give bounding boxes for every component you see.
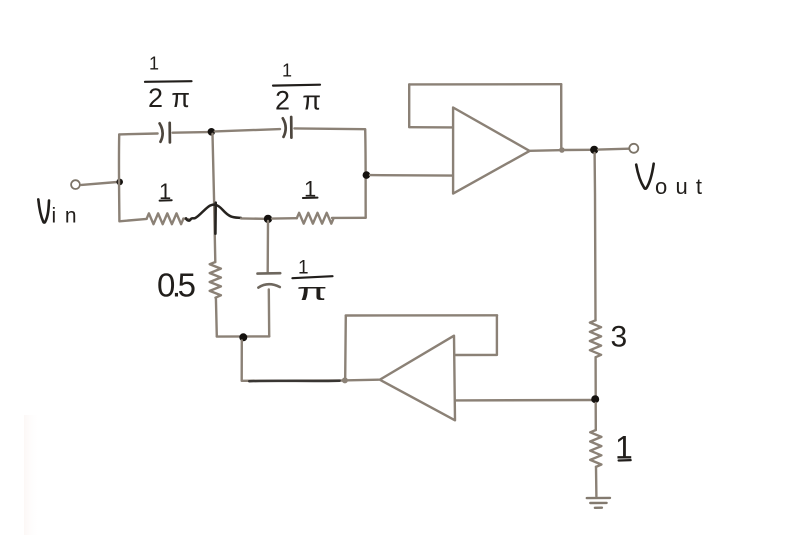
capacitor C2 <box>283 117 292 138</box>
wire node B to R2 <box>272 217 297 220</box>
wire U2 non-inverting input to divider node <box>455 399 593 402</box>
junction dot node C (right vertical, op-amp tap) <box>363 171 371 179</box>
wire left vertical of twin-T <box>118 135 121 221</box>
resistor R1 (value 1, left) <box>147 213 184 224</box>
label R4 value 3 <box>611 321 628 354</box>
capacitor C1 <box>160 123 170 142</box>
wire Vout node to terminal <box>598 147 629 150</box>
wire U2 feedback left vertical <box>344 316 347 378</box>
wire top, node A to C2 <box>215 129 280 131</box>
wire R2 to right corner <box>332 217 366 219</box>
wire top, C2 to right corner <box>294 127 365 130</box>
wire R3 bottom lead <box>215 298 218 337</box>
wire U1 feedback right vertical <box>560 84 562 147</box>
wire R5 to ground <box>595 467 598 497</box>
wire U1 output node segment <box>565 149 591 152</box>
junction dot node B (bottom middle) <box>264 215 272 223</box>
wire bottom, left corner to R1 <box>119 219 146 221</box>
svg-text:3: 3 <box>611 321 628 354</box>
wire node D down <box>240 341 243 381</box>
wire Vout node down to R4 <box>593 153 596 320</box>
wire U2 feedback right vertical <box>496 315 498 354</box>
junction dot Vout node <box>590 146 598 154</box>
wire C3 bottom lead <box>268 289 271 336</box>
wire bottom bar joining R3 and C3 <box>217 335 269 338</box>
resistor R5 (value 1, vertical) <box>590 430 601 467</box>
input terminal Vin (open circle) <box>71 180 80 189</box>
wire U2 feedback to inverting input <box>456 354 497 357</box>
junction dot U2 output node (grey) <box>342 377 348 383</box>
label R5 value 1 <box>615 430 633 466</box>
label C1 value 1/(2pi) <box>145 54 192 113</box>
label R3 value 0.5 <box>157 267 196 304</box>
junction dot divider node <box>591 395 599 403</box>
wire U2 feedback top <box>346 314 497 317</box>
wire right vertical of twin-T <box>364 129 367 218</box>
junction dot U1 feedback node (grey) <box>559 147 565 153</box>
capacitor C3 (value 1/pi, vertical) <box>258 273 281 287</box>
wire R1 to crossover <box>183 217 188 220</box>
svg-text:1: 1 <box>298 258 309 279</box>
wire top, C1 to node A <box>173 131 208 134</box>
wire crossover hop (dark retrace) <box>186 203 241 234</box>
label Vin <box>38 199 76 227</box>
resistor R2 (value 1, right) <box>297 213 334 224</box>
resistor R4 (value 3, vertical) <box>590 320 601 357</box>
wire node B down to C3 <box>267 221 270 273</box>
label R1 value 1 <box>159 179 172 204</box>
op-amp U2 (left pointing) <box>380 336 455 421</box>
wire U2 output node to U2 output <box>348 379 379 382</box>
output terminal Vout (open circle) <box>629 144 638 153</box>
junction dot node A (top middle) <box>208 128 216 136</box>
wire top, left segment to C1 <box>119 132 157 135</box>
ground <box>587 498 610 508</box>
wire Vin lead to node <box>82 182 118 185</box>
svg-text:1: 1 <box>149 54 159 74</box>
wire R4 to divider node <box>594 357 597 395</box>
svg-text:1: 1 <box>282 60 292 80</box>
junction dot node D (bridge bottom) <box>239 333 247 341</box>
wire node D to U2 output node (horizontal) <box>242 379 345 382</box>
wire dark retrace on U2 output wire <box>249 379 339 382</box>
label C3 value 1/pi <box>292 258 332 306</box>
wire node C to op-amp U1 non-inverting input <box>370 174 453 177</box>
op-amp U1 (right pointing) <box>453 108 529 194</box>
wire vertical node A down through crossover to R3 <box>213 134 216 262</box>
svg-text:in: in <box>52 205 77 228</box>
label Vout <box>636 164 702 199</box>
wire divider node to R5 <box>595 403 597 430</box>
svg-text:0.5: 0.5 <box>157 267 196 304</box>
svg-text:π: π <box>297 278 328 305</box>
junction dot at Vin node <box>116 179 123 186</box>
wire U1 output to feedback node <box>530 149 559 152</box>
wire U1 feedback top <box>409 83 561 86</box>
svg-text:out: out <box>655 174 702 199</box>
resistor R3 (value 0.5, vertical) <box>210 262 221 298</box>
label R2 value 1 <box>303 177 318 202</box>
label C2 value 1/(2pi) <box>273 60 321 115</box>
wire U1 feedback left vertical <box>408 84 410 126</box>
wire crossover to node B <box>241 217 264 220</box>
wire U1 feedback to inverting input <box>409 126 453 129</box>
